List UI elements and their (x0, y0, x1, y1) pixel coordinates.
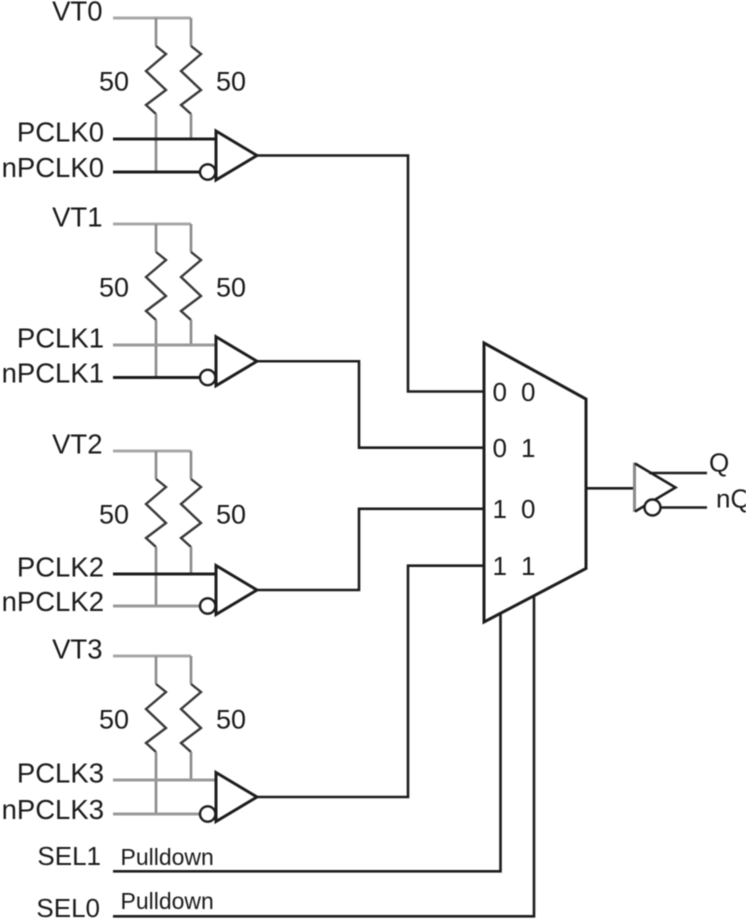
svg-text:PCLK3: PCLK3 (17, 758, 104, 789)
svg-text:50: 50 (216, 67, 246, 97)
multiplexer U5 (4:1 clock mux) (484, 343, 586, 622)
output buffer U6 (differential driver Q/nQ) (635, 463, 676, 516)
svg-text:0: 0 (521, 494, 535, 524)
svg-text:nQ: nQ (716, 484, 746, 514)
input buffer U2 (differential receiver PCLK1/nPCLK1) (200, 337, 257, 386)
input buffer U4 (differential receiver PCLK3/nPCLK3) (200, 773, 257, 822)
svg-text:50: 50 (99, 273, 129, 303)
wire VT0 to termination resistors (113, 17, 191, 20)
input buffer U3 (differential receiver PCLK2/nPCLK2) (200, 566, 257, 615)
wire nPCLK0 to buffer inverting input (113, 171, 200, 174)
wire nPCLK2 to buffer inverting input (113, 605, 200, 608)
resistor R7 50 ohm (VT3 to nPCLK3) (155, 656, 158, 684)
svg-text:50: 50 (216, 273, 246, 303)
svg-text:PCLK0: PCLK0 (17, 117, 104, 148)
svg-text:PCLK2: PCLK2 (17, 552, 104, 583)
svg-text:SEL0: SEL0 (36, 893, 100, 919)
svg-text:VT2: VT2 (52, 429, 102, 460)
resistor R3 50 ohm (VT1 to nPCLK1) (155, 224, 158, 252)
svg-text:50: 50 (216, 500, 246, 530)
svg-text:50: 50 (99, 500, 129, 530)
svg-text:0: 0 (493, 433, 507, 463)
resistor R1 50 ohm (VT0 to nPCLK0) (155, 18, 158, 46)
resistor R6 50 ohm (VT2 to PCLK2) (190, 451, 193, 479)
wire buffer U1 output to mux input 0 (257, 156, 484, 392)
input buffer U1 (differential receiver PCLK0/nPCLK0) (200, 131, 257, 180)
svg-text:Q: Q (709, 448, 729, 478)
resistor R8 50 ohm (VT3 to PCLK3) (190, 656, 193, 684)
svg-text:nPCLK0: nPCLK0 (2, 152, 104, 183)
svg-text:VT3: VT3 (52, 634, 102, 665)
resistor R2 50 ohm (VT0 to PCLK0) (190, 18, 193, 46)
wire PCLK3 to buffer input (113, 779, 216, 782)
wire Q output (649, 472, 707, 475)
wire nPCLK1 to buffer inverting input (113, 376, 200, 379)
svg-text:SEL1: SEL1 (37, 841, 101, 871)
wire PCLK2 to buffer input (113, 573, 216, 576)
svg-text:50: 50 (99, 67, 129, 97)
svg-text:1: 1 (493, 494, 507, 524)
svg-text:nPCLK2: nPCLK2 (2, 586, 104, 617)
wire SEL1 to mux select input (113, 614, 501, 872)
resistor R5 50 ohm (VT2 to nPCLK2) (155, 451, 158, 479)
svg-text:50: 50 (216, 705, 246, 735)
wire PCLK1 to buffer input (113, 344, 216, 347)
wire mux output to output buffer (586, 487, 634, 490)
svg-text:1: 1 (521, 551, 535, 581)
wire buffer U4 output to mux input 3 (257, 566, 484, 797)
wire buffer U2 output to mux input 1 (257, 361, 484, 447)
svg-text:Pulldown: Pulldown (121, 844, 214, 870)
svg-text:1: 1 (521, 433, 535, 463)
wire nQ output (661, 506, 708, 509)
svg-text:0: 0 (521, 377, 535, 407)
wire VT1 to termination resistors (113, 223, 191, 226)
wire VT3 to termination resistors (113, 655, 191, 658)
svg-text:1: 1 (493, 551, 507, 581)
wire buffer U3 output to mux input 2 (257, 509, 484, 590)
wire PCLK0 to buffer input (113, 138, 216, 141)
svg-text:VT1: VT1 (52, 202, 102, 233)
resistor R4 50 ohm (VT1 to PCLK1) (190, 224, 193, 252)
svg-text:0: 0 (493, 377, 507, 407)
svg-text:nPCLK1: nPCLK1 (2, 358, 104, 389)
svg-text:VT0: VT0 (52, 0, 102, 27)
wire nPCLK3 to buffer inverting input (113, 813, 200, 816)
wire SEL0 to mux select input (113, 596, 534, 917)
svg-text:PCLK1: PCLK1 (17, 323, 104, 354)
svg-text:nPCLK3: nPCLK3 (2, 794, 104, 825)
svg-text:Pulldown: Pulldown (121, 888, 214, 914)
svg-text:50: 50 (99, 705, 129, 735)
wire VT2 to termination resistors (113, 450, 191, 453)
